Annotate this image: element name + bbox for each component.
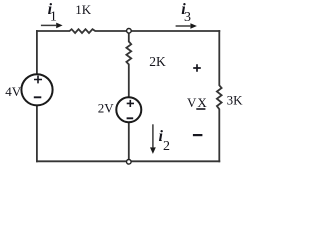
svg-text:4V: 4V (5, 84, 22, 99)
svg-text:3K: 3K (227, 93, 244, 108)
svg-text:1K: 1K (75, 2, 92, 17)
svg-text:1: 1 (50, 9, 57, 24)
svg-text:3: 3 (184, 10, 191, 25)
svg-text:2: 2 (163, 139, 170, 154)
svg-text:VX: VX (187, 95, 208, 110)
svg-text:2V: 2V (98, 101, 115, 116)
svg-text:2K: 2K (149, 54, 166, 69)
